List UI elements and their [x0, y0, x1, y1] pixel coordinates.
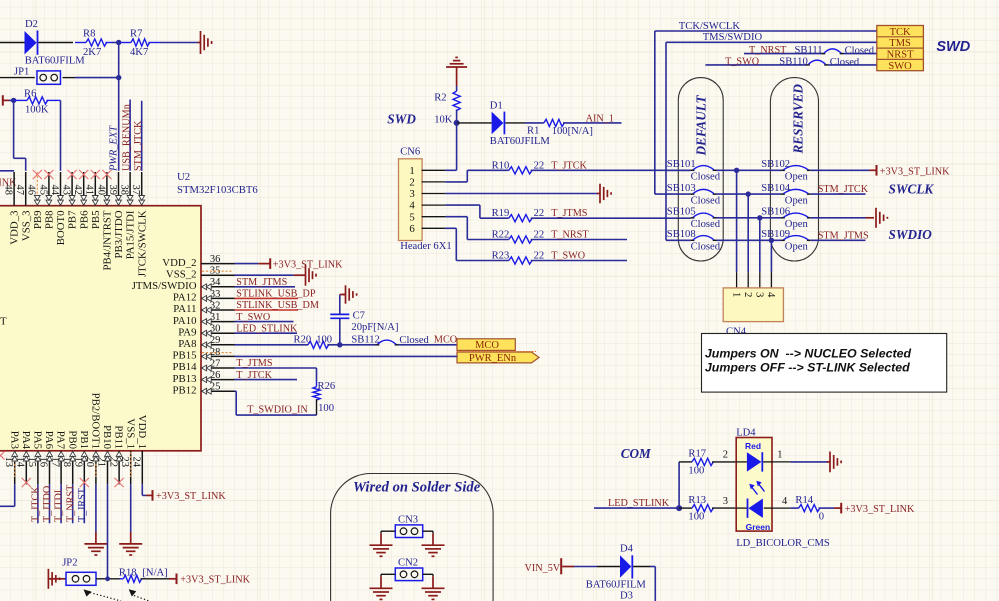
svg-text:PA7: PA7 [55, 431, 67, 450]
svg-text:SWDIO: SWDIO [889, 227, 933, 242]
svg-text:2: 2 [742, 292, 754, 297]
svg-text:PB8: PB8 [44, 211, 56, 230]
svg-text:Red: Red [745, 441, 761, 451]
svg-text:T_JTCK: T_JTCK [551, 160, 587, 171]
svg-text:R17: R17 [688, 449, 706, 460]
svg-text:PWR_ENn: PWR_ENn [469, 353, 517, 364]
svg-text:COM: COM [621, 446, 652, 461]
svg-text:+3V3_ST_LINK: +3V3_ST_LINK [180, 575, 250, 586]
svg-text:SB111: SB111 [795, 45, 823, 56]
svg-text:LED_STLINK: LED_STLINK [236, 323, 298, 334]
svg-text:LD_BICOLOR_CMS: LD_BICOLOR_CMS [736, 538, 830, 549]
svg-text:PB5: PB5 [90, 211, 102, 230]
svg-text:SB110: SB110 [779, 57, 807, 68]
svg-text:T_NRST: T_NRST [749, 45, 787, 56]
svg-text:PB6: PB6 [78, 210, 90, 229]
svg-text:0: 0 [819, 512, 824, 523]
svg-text:100K: 100K [25, 105, 49, 116]
svg-text:Closed: Closed [399, 335, 429, 346]
svg-text:40: 40 [95, 185, 106, 196]
svg-text:R26: R26 [318, 381, 336, 392]
svg-text:PB10: PB10 [101, 425, 113, 449]
svg-text:TMS/SWDIO: TMS/SWDIO [703, 32, 763, 43]
svg-text:14: 14 [15, 457, 26, 468]
svg-text:T_SWO: T_SWO [551, 251, 585, 262]
svg-text:STM_JTMS: STM_JTMS [236, 277, 287, 288]
svg-text:VDD_3: VDD_3 [9, 211, 21, 245]
svg-text:T_JTCK: T_JTCK [31, 486, 42, 522]
svg-text:41: 41 [84, 185, 95, 196]
svg-text:3: 3 [723, 496, 728, 507]
svg-text:37: 37 [130, 185, 141, 196]
svg-text:R2: R2 [434, 93, 446, 104]
svg-text:STLINK_USB_DM: STLINK_USB_DM [236, 300, 319, 311]
svg-text:PB2/BOOT1: PB2/BOOT1 [90, 393, 102, 449]
svg-text:D3: D3 [620, 590, 633, 601]
svg-text:PB9: PB9 [32, 211, 44, 230]
svg-text:18: 18 [61, 457, 72, 468]
svg-text:22: 22 [534, 208, 545, 219]
svg-text:16: 16 [38, 457, 49, 468]
svg-text:47: 47 [14, 185, 25, 196]
svg-text:VSS_3: VSS_3 [20, 211, 32, 242]
svg-text:Jumpers OFF --> ST-LINK Select: Jumpers OFF --> ST-LINK Selected [705, 361, 910, 375]
svg-text:100: 100 [316, 334, 332, 345]
svg-text:4: 4 [409, 200, 415, 212]
svg-text:T_JTCK: T_JTCK [236, 370, 272, 381]
svg-text:BAT60JFILM: BAT60JFILM [490, 136, 551, 147]
svg-text:VDD_1: VDD_1 [136, 415, 148, 449]
svg-text:BOOT0: BOOT0 [55, 211, 67, 246]
svg-text:D1: D1 [490, 101, 503, 112]
svg-text:100[N/A]: 100[N/A] [552, 126, 593, 137]
svg-text:2: 2 [409, 177, 414, 189]
svg-text:+3V3_ST_LINK: +3V3_ST_LINK [273, 259, 343, 270]
svg-text:1: 1 [409, 165, 414, 177]
svg-text:T_NRST: T_NRST [65, 484, 76, 522]
svg-text:20: 20 [84, 457, 95, 468]
svg-text:TCK: TCK [890, 27, 911, 38]
svg-text:R6: R6 [24, 88, 36, 99]
svg-text:R19: R19 [492, 208, 510, 219]
svg-text:T_SWDIO_IN: T_SWDIO_IN [247, 404, 308, 415]
svg-text:Closed: Closed [691, 172, 721, 183]
svg-text:3: 3 [754, 292, 766, 297]
svg-text:SB102: SB102 [761, 159, 790, 170]
svg-text:PA4: PA4 [20, 431, 32, 450]
svg-text:17: 17 [49, 457, 60, 468]
svg-text:PB0: PB0 [66, 430, 78, 449]
svg-text:C7: C7 [353, 310, 365, 321]
svg-text:22: 22 [534, 230, 545, 241]
svg-text:20pF[N/A]: 20pF[N/A] [351, 322, 398, 333]
svg-text:VSS_1: VSS_1 [124, 418, 136, 449]
svg-text:SB112: SB112 [351, 334, 379, 345]
svg-text:T_NRST: T_NRST [551, 230, 589, 241]
svg-text:MCO: MCO [434, 334, 457, 345]
svg-text:100: 100 [688, 512, 704, 523]
svg-text:SWD: SWD [387, 112, 416, 127]
svg-text:13: 13 [3, 457, 14, 468]
svg-text:PB14: PB14 [172, 361, 197, 373]
svg-text:Open: Open [785, 242, 809, 253]
svg-text:BAT60JFILM: BAT60JFILM [25, 56, 86, 67]
svg-text:Jumpers ON --> NUCLEO Selecte: Jumpers ON --> NUCLEO Selected [705, 347, 912, 361]
svg-text:LED_STLINK: LED_STLINK [608, 498, 670, 509]
svg-text:PB1: PB1 [78, 430, 90, 449]
svg-text:42: 42 [72, 185, 83, 196]
svg-text:R13: R13 [688, 495, 706, 506]
svg-text:1: 1 [777, 450, 782, 461]
svg-text:+3V3_ST_LINK: +3V3_ST_LINK [880, 166, 950, 177]
svg-text:CN3: CN3 [398, 515, 418, 526]
svg-text:100: 100 [318, 403, 334, 414]
svg-text:22: 22 [534, 160, 545, 171]
svg-text:[N/A]: [N/A] [142, 567, 167, 578]
svg-text:JP1: JP1 [14, 67, 29, 78]
svg-text:48: 48 [3, 185, 14, 196]
svg-text:AIN_1: AIN_1 [586, 113, 614, 124]
svg-text:38: 38 [119, 185, 130, 196]
svg-text:R18: R18 [119, 567, 137, 578]
svg-text:T_JTDI: T_JTDI [54, 489, 65, 522]
svg-text:43: 43 [61, 185, 72, 196]
svg-text:TMS: TMS [889, 38, 911, 49]
svg-text:Green: Green [746, 522, 771, 532]
svg-text:Open: Open [785, 195, 809, 206]
svg-text:JTMS/SWDIO: JTMS/SWDIO [132, 280, 197, 292]
svg-text:PA15/JTDI: PA15/JTDI [125, 210, 137, 259]
svg-text:22: 22 [107, 457, 118, 468]
svg-text:T: T [0, 316, 7, 328]
svg-text:R8: R8 [83, 29, 95, 40]
svg-text:22: 22 [534, 251, 545, 262]
svg-text:2: 2 [723, 450, 728, 461]
svg-text:VDD_2: VDD_2 [162, 257, 196, 269]
svg-text:Closed: Closed [830, 57, 860, 68]
svg-text:100: 100 [688, 465, 704, 476]
svg-text:VSS_2: VSS_2 [166, 268, 197, 280]
svg-text:SWO: SWO [888, 61, 912, 72]
svg-text:Open: Open [785, 172, 809, 183]
svg-text:4K7: 4K7 [130, 47, 148, 58]
svg-text:1: 1 [730, 292, 742, 297]
svg-text:R23: R23 [492, 251, 510, 262]
svg-text:PB15: PB15 [172, 350, 196, 362]
svg-text:46: 46 [26, 185, 37, 196]
svg-text:Header 6X1: Header 6X1 [400, 241, 451, 252]
svg-text:+3V3_ST_LINK: +3V3_ST_LINK [156, 491, 226, 502]
svg-text:15: 15 [26, 457, 37, 468]
svg-text:PA11: PA11 [173, 303, 196, 315]
svg-text:BAT60JFILM: BAT60JFILM [586, 580, 647, 591]
svg-text:PWR_EXT: PWR_EXT [109, 125, 120, 172]
svg-text:39: 39 [107, 185, 118, 196]
svg-text:PB7: PB7 [67, 210, 79, 229]
svg-text:Closed: Closed [845, 46, 875, 57]
svg-text:PA6: PA6 [43, 431, 55, 450]
svg-text:21: 21 [96, 457, 107, 468]
svg-text:NRST: NRST [887, 50, 914, 61]
svg-text:SB105: SB105 [667, 207, 696, 218]
svg-text:T_SWO: T_SWO [236, 312, 270, 323]
svg-text:STM32F103CBT6: STM32F103CBT6 [177, 184, 258, 196]
svg-text:Closed: Closed [691, 242, 721, 253]
svg-text:STLINK_USB_DP: STLINK_USB_DP [236, 289, 316, 300]
svg-text:24: 24 [131, 457, 142, 468]
svg-text:Closed: Closed [691, 195, 721, 206]
svg-text:RESERVED: RESERVED [791, 84, 806, 155]
svg-text:PB4/JNTRST: PB4/JNTRST [102, 210, 114, 270]
svg-text:MCO: MCO [475, 340, 499, 351]
svg-text:PB13: PB13 [172, 373, 196, 385]
svg-text:CN2: CN2 [398, 558, 418, 569]
svg-text:23: 23 [119, 457, 130, 468]
svg-text:6: 6 [409, 223, 415, 235]
svg-text:LD4: LD4 [736, 428, 756, 439]
svg-text:10K: 10K [434, 115, 453, 126]
svg-text:SB109: SB109 [761, 229, 790, 240]
svg-text:SB101: SB101 [667, 159, 696, 170]
svg-text:DEFAULT: DEFAULT [694, 94, 709, 156]
svg-text:+3V3_ST_LINK: +3V3_ST_LINK [845, 504, 915, 515]
svg-text:44: 44 [49, 185, 60, 196]
svg-text:SWCLK: SWCLK [889, 181, 935, 196]
svg-text:U2: U2 [177, 171, 190, 183]
svg-text:PA8: PA8 [178, 338, 196, 350]
svg-text:SWD: SWD [936, 39, 970, 55]
svg-text:45: 45 [37, 185, 48, 196]
svg-text:4: 4 [782, 496, 788, 507]
svg-text:PA9: PA9 [178, 326, 196, 338]
svg-text:3: 3 [409, 188, 414, 200]
svg-text:R22: R22 [492, 230, 510, 241]
svg-text:JTCK/SWCLK: JTCK/SWCLK [136, 210, 148, 277]
svg-text:PA12: PA12 [173, 292, 197, 304]
svg-text:PB12: PB12 [172, 384, 196, 396]
svg-text:STM_JTCK: STM_JTCK [133, 120, 144, 171]
svg-text:TCK/SWCLK: TCK/SWCLK [679, 21, 741, 32]
svg-text:2K7: 2K7 [83, 47, 101, 58]
svg-text:T_JRST: T_JRST [77, 487, 88, 522]
svg-text:T_JTMS: T_JTMS [551, 208, 588, 219]
svg-text:D2: D2 [25, 19, 38, 30]
svg-text:R10: R10 [492, 160, 510, 171]
svg-text:36: 36 [210, 254, 221, 265]
svg-text:CN6: CN6 [400, 146, 420, 157]
svg-text:PA3: PA3 [8, 431, 20, 449]
svg-text:D4: D4 [620, 543, 634, 554]
svg-text:USB_RENUMn: USB_RENUMn [121, 104, 132, 171]
svg-text:T_SWO: T_SWO [725, 57, 759, 68]
svg-text:R7: R7 [130, 29, 142, 40]
svg-text:PB11: PB11 [113, 425, 125, 449]
svg-text:R1: R1 [527, 126, 539, 137]
svg-text:PB3/JTDO: PB3/JTDO [113, 210, 125, 258]
svg-text:STM_JTCK: STM_JTCK [818, 184, 869, 195]
svg-text:Wired on Solder Side: Wired on Solder Side [353, 479, 481, 495]
svg-text:JP2: JP2 [62, 558, 77, 569]
svg-text:SB104: SB104 [761, 183, 791, 194]
svg-text:T_JTDO: T_JTDO [42, 486, 53, 522]
svg-text:19: 19 [73, 457, 84, 468]
svg-text:4: 4 [765, 292, 777, 298]
svg-text:VIN_5V: VIN_5V [525, 563, 561, 574]
svg-text:SB106: SB106 [761, 207, 790, 218]
svg-text:STM_JTMS: STM_JTMS [818, 230, 869, 241]
svg-text:PA10: PA10 [173, 315, 197, 327]
svg-text:5: 5 [409, 211, 414, 223]
svg-text:SB108: SB108 [667, 229, 696, 240]
svg-text:SB103: SB103 [667, 183, 696, 194]
svg-text:R14: R14 [795, 495, 813, 506]
svg-text:T_JTMS: T_JTMS [236, 358, 273, 369]
svg-text:R20: R20 [294, 334, 312, 345]
svg-text:PA5: PA5 [32, 431, 44, 449]
